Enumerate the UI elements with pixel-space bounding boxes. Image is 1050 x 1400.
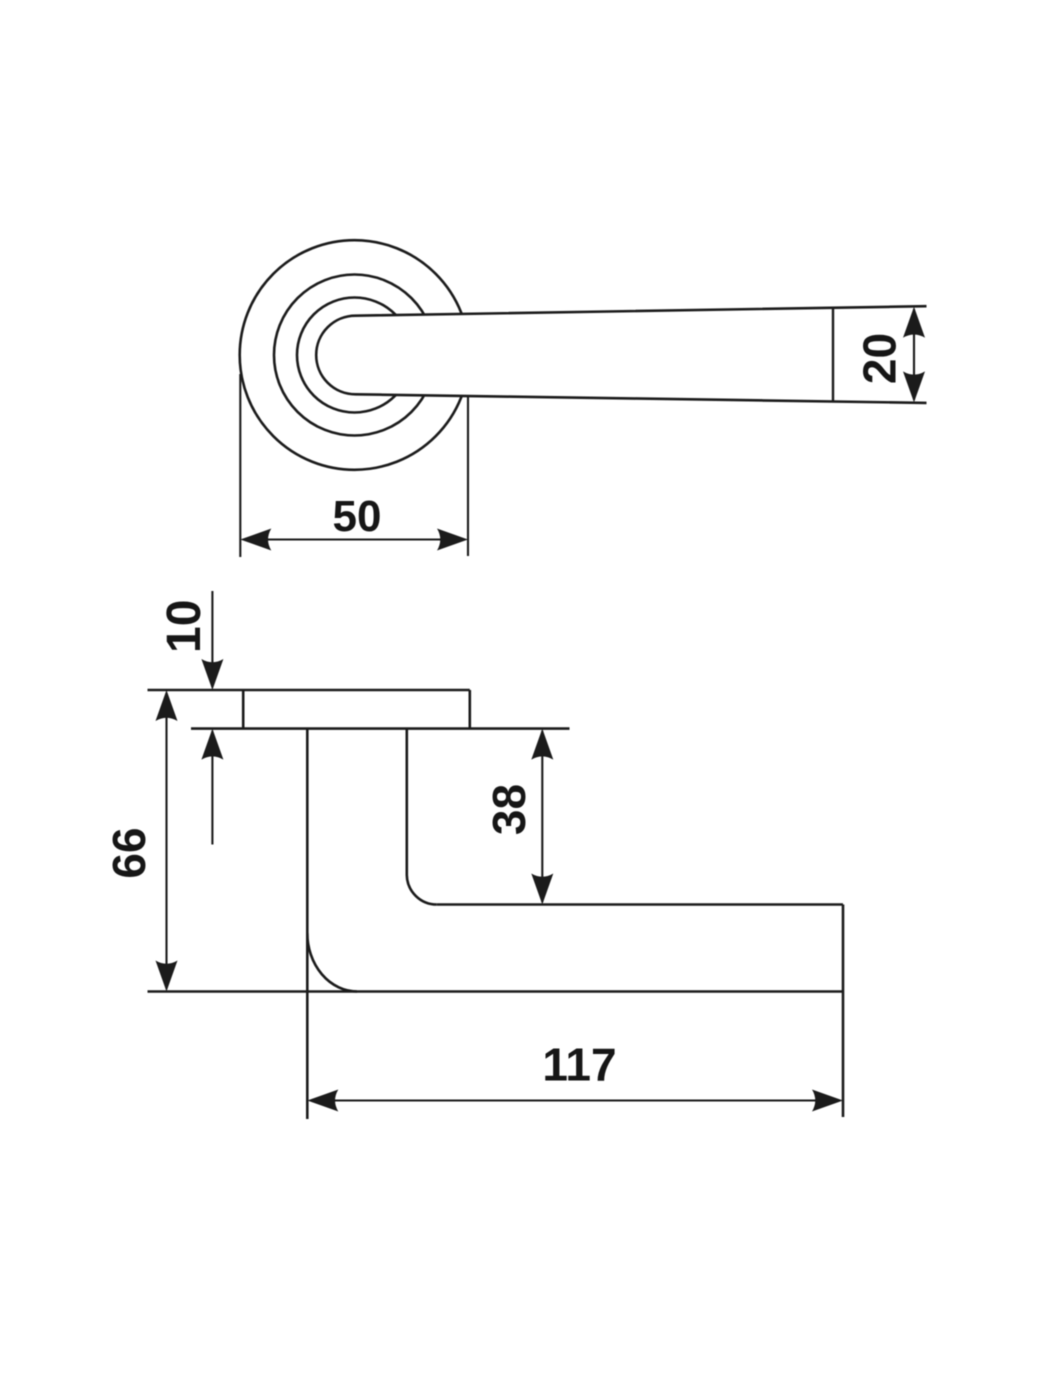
dim 50 right arrowhead — [437, 529, 468, 551]
rosette middle circle — [274, 275, 435, 436]
neck right corner curve — [407, 875, 437, 905]
dim 50 dimension line — [243, 538, 465, 540]
lever outline (top view, open right end) — [316, 306, 926, 403]
dim 20 bottom arrowhead — [903, 371, 925, 402]
grip top edge — [437, 903, 843, 906]
dim 38 dimension line — [541, 731, 543, 902]
dim 10 upper arrowhead (points down) — [201, 659, 223, 690]
side view rosette right edge — [468, 690, 471, 729]
dim 10 lower arrow line — [211, 731, 213, 845]
svg-text:38: 38 — [483, 784, 535, 835]
dim 117 right arrowhead — [812, 1090, 843, 1112]
dim 66 dimension line — [165, 693, 167, 989]
lever neck break line — [832, 308, 834, 402]
side view rosette bottom line — [191, 727, 570, 730]
svg-text:117: 117 — [542, 1039, 616, 1091]
neck left corner curve — [307, 933, 357, 992]
dim 50 left extension line — [239, 374, 241, 557]
dim 38 bottom arrowhead — [531, 874, 553, 905]
dim 117 dimension line — [310, 1099, 840, 1101]
dim 38 top arrowhead — [531, 729, 553, 760]
dim 10 upper arrow line — [211, 591, 213, 687]
dim 20 dimension line — [913, 309, 915, 400]
dim 66 bottom arrowhead — [156, 961, 178, 992]
svg-text:10: 10 — [158, 600, 211, 653]
rosette inner circle — [297, 298, 412, 413]
rosette outer circle (top view) — [240, 240, 470, 470]
dim 117 left arrowhead — [307, 1090, 338, 1112]
svg-text:20: 20 — [854, 333, 906, 384]
grip bottom edge / base line — [148, 990, 844, 993]
neck left edge + 117 left extension — [306, 729, 309, 1119]
svg-text:50: 50 — [333, 492, 382, 541]
lever body fill (top view, covers circles) — [316, 306, 926, 403]
grip right edge + 117 right extension — [842, 905, 845, 1118]
dim 50 right extension line — [467, 396, 469, 556]
dim 50 left arrowhead — [240, 529, 271, 551]
dim 10 lower arrowhead (points up) — [201, 729, 223, 760]
dim 66 top arrowhead — [156, 690, 178, 721]
dim 20 top arrowhead — [903, 307, 925, 338]
svg-text:66: 66 — [103, 827, 155, 878]
neck right edge — [405, 729, 408, 875]
side view rosette top line — [148, 689, 470, 692]
side view rosette left edge — [242, 690, 245, 729]
